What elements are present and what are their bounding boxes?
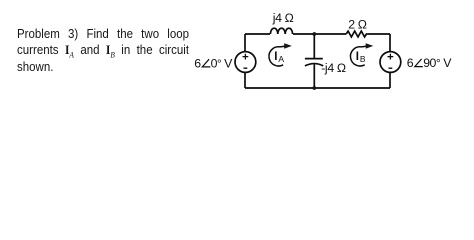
label IA bbox=[274, 51, 284, 64]
svg-text:-j4 Ω: -j4 Ω bbox=[321, 61, 346, 75]
wire top-right segment bbox=[368, 33, 390, 35]
voltage source V1 bbox=[235, 52, 256, 73]
wire bottom segment bbox=[245, 87, 390, 89]
loop current IB arrow bbox=[350, 43, 373, 66]
svg-text:6: 6 bbox=[407, 56, 414, 70]
svg-text:A: A bbox=[278, 54, 284, 64]
capacitor C1 bbox=[305, 59, 323, 66]
node junction (top) bbox=[312, 32, 316, 36]
svg-text:I: I bbox=[274, 51, 277, 63]
wire left vertical (bottom) bbox=[244, 72, 246, 88]
svg-text:B: B bbox=[360, 54, 366, 64]
wire middle branch (bottom) bbox=[313, 64, 315, 88]
wire top-left segment bbox=[245, 33, 270, 35]
wire left vertical (top) bbox=[244, 34, 246, 52]
wire right vertical (top) bbox=[389, 34, 391, 52]
voltage source V2 bbox=[380, 52, 401, 73]
svg-text:j4 Ω: j4 Ω bbox=[272, 11, 294, 25]
node junction (bottom) bbox=[312, 86, 316, 90]
wire top-middle segment bbox=[293, 33, 346, 35]
label IB bbox=[356, 51, 366, 64]
svg-text:I: I bbox=[356, 51, 359, 63]
label V2 value 6∠90° V bbox=[407, 56, 452, 70]
label V1 value 6∠0° V bbox=[194, 56, 233, 70]
resistor R1 bbox=[346, 31, 367, 37]
svg-text:90° V: 90° V bbox=[423, 56, 452, 70]
inductor L1 bbox=[270, 28, 292, 34]
svg-text:2 Ω: 2 Ω bbox=[348, 18, 367, 32]
svg-text:0° V: 0° V bbox=[211, 56, 234, 70]
wire right vertical (bottom) bbox=[389, 72, 391, 88]
loop current IA arrow bbox=[269, 43, 292, 66]
wire middle branch (top) bbox=[313, 34, 315, 59]
svg-text:6: 6 bbox=[194, 56, 201, 70]
